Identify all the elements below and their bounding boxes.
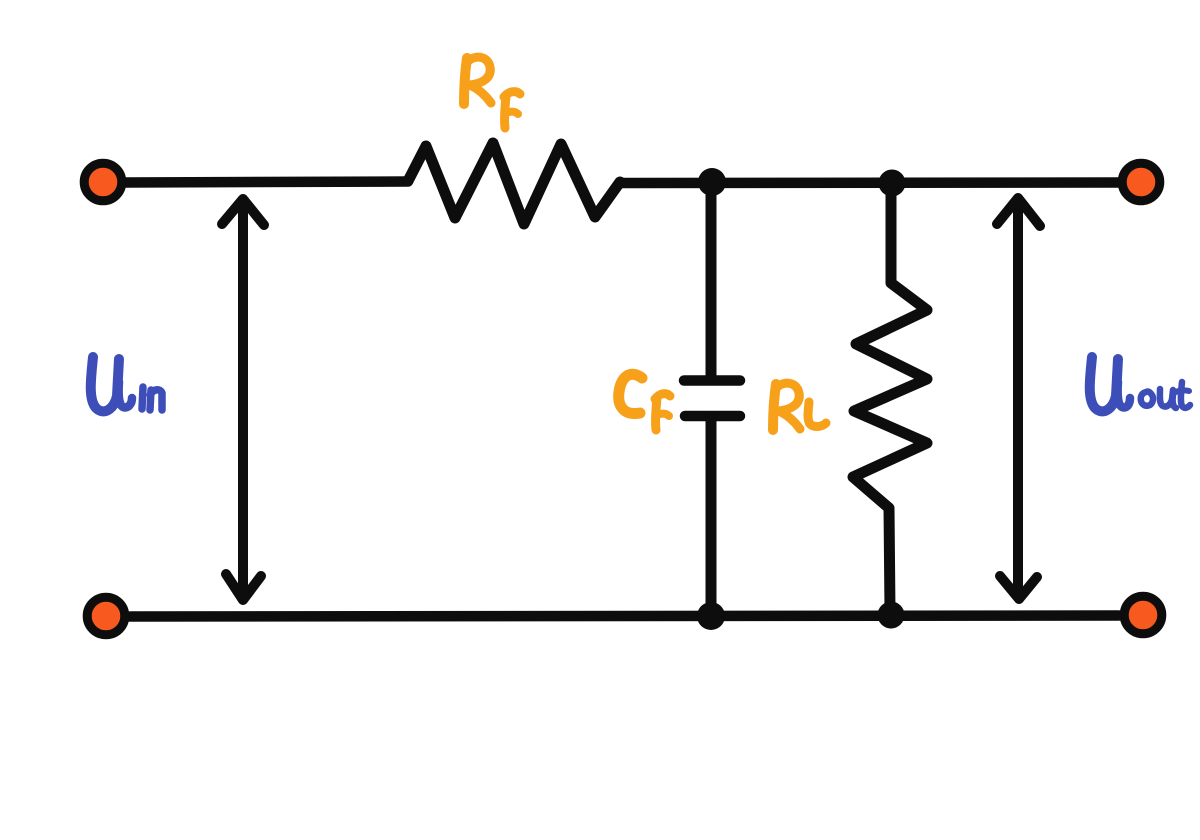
terminal input top bbox=[84, 163, 122, 201]
Uout measurement arrow bbox=[997, 198, 1040, 599]
node junction top A bbox=[698, 168, 726, 196]
resistor R_F bbox=[408, 143, 620, 224]
wire capacitor upper lead bbox=[706, 186, 717, 375]
node junction bottom A bbox=[697, 602, 725, 630]
node junction top B bbox=[879, 170, 906, 197]
node junction bottom B bbox=[878, 602, 905, 629]
terminal output bottom bbox=[1124, 596, 1162, 634]
Uin measurement arrow bbox=[222, 199, 264, 600]
label U_out bbox=[1090, 357, 1190, 411]
wire top-left segment bbox=[126, 182, 408, 183]
wire top-right segment bbox=[620, 177, 1118, 188]
terminal input bottom bbox=[87, 597, 125, 635]
resistor R_L bbox=[853, 187, 927, 611]
capacitor C1 bottom plate bbox=[685, 411, 740, 422]
label C_F bbox=[619, 374, 670, 430]
label R_L bbox=[773, 383, 826, 430]
wire bottom bbox=[130, 616, 1119, 617]
wire capacitor lower lead bbox=[706, 421, 717, 611]
capacitor C1 top plate bbox=[684, 375, 740, 386]
label R_F bbox=[464, 57, 520, 128]
terminal output top bbox=[1122, 163, 1160, 201]
label U_in bbox=[91, 357, 162, 411]
